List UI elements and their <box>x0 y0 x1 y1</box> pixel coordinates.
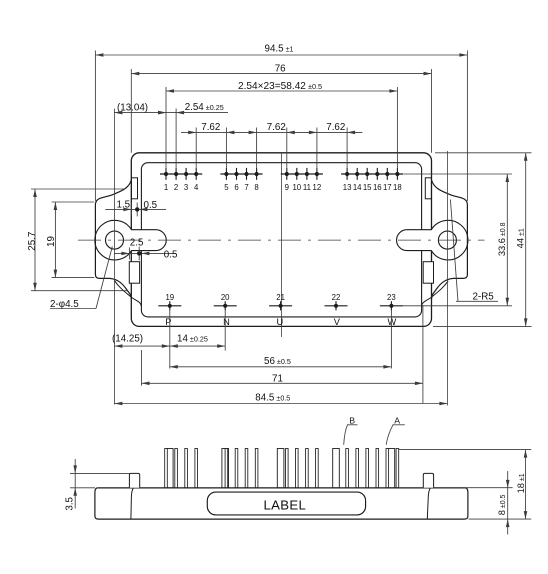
bottom pin crosses 19-23 <box>158 301 403 310</box>
top pin crosses 1-18 <box>164 168 400 180</box>
bottom pin numbers <box>165 293 395 302</box>
side view stub right <box>423 473 433 487</box>
svg-text:20: 20 <box>221 293 230 302</box>
vertical centerline <box>280 153 282 337</box>
svg-text:56 ±0.5: 56 ±0.5 <box>264 356 291 367</box>
pin label B with leader <box>344 415 358 445</box>
side view parting line left <box>131 488 134 519</box>
svg-text:19: 19 <box>165 293 174 302</box>
ext pin1 <box>165 87 167 168</box>
label text <box>264 497 307 512</box>
svg-text:P: P <box>165 317 171 327</box>
svg-text:76: 76 <box>275 63 286 74</box>
ext pins 4 5 8 9 12 13 <box>196 128 347 168</box>
dim 76 case width <box>131 63 431 153</box>
side view stub left <box>129 473 139 487</box>
svg-text:19: 19 <box>46 236 57 247</box>
lid step outline (71 wide) <box>141 163 421 317</box>
svg-text:25.7: 25.7 <box>27 232 38 251</box>
svg-text:B: B <box>349 415 355 425</box>
top pin numbers <box>164 183 402 192</box>
pin label A with leader <box>386 415 405 445</box>
dim (13.04) and 2.54±0.25 <box>114 102 228 114</box>
top pin row lines <box>160 173 403 175</box>
dim (14.25) and 14±0.25 <box>112 334 225 348</box>
svg-text:9: 9 <box>285 183 289 192</box>
dim 7.62 group pitches <box>181 122 362 134</box>
svg-text:5: 5 <box>224 183 229 192</box>
svg-text:94.5 ±1: 94.5 ±1 <box>265 44 294 55</box>
svg-text:23: 23 <box>387 293 396 302</box>
svg-text:7.62: 7.62 <box>201 122 220 133</box>
ext pin2 <box>175 109 177 168</box>
dim 33.6±0.8 pin row span <box>403 174 513 306</box>
mounting cutout R5 right <box>397 220 468 260</box>
svg-text:16: 16 <box>373 183 382 192</box>
svg-text:12: 12 <box>313 183 322 192</box>
svg-text:2.54×23=58.42 ±0.5: 2.54×23=58.42 ±0.5 <box>238 81 322 92</box>
svg-text:22: 22 <box>332 293 341 302</box>
svg-text:84.5 ±0.5: 84.5 ±0.5 <box>255 392 290 403</box>
svg-text:3: 3 <box>184 183 188 192</box>
svg-text:V: V <box>334 317 341 327</box>
svg-text:3.5: 3.5 <box>64 496 75 510</box>
svg-text:11: 11 <box>303 183 311 192</box>
svg-text:15: 15 <box>363 183 372 192</box>
label 2-R5 with leader <box>450 200 498 303</box>
dim 2.54x23=58.42 pin span <box>166 81 397 93</box>
svg-text:7: 7 <box>244 183 248 192</box>
dim 44±1 case height <box>433 153 532 327</box>
svg-text:8: 8 <box>254 183 258 192</box>
dim 71 <box>142 373 423 385</box>
boss rectangle lower-right <box>423 262 433 284</box>
side view parting line right <box>427 488 430 519</box>
mounting cutout R5 left <box>95 220 166 260</box>
svg-text:(14.25): (14.25) <box>112 334 143 345</box>
flange edge line right <box>446 151 448 406</box>
svg-text:LABEL: LABEL <box>264 497 307 512</box>
svg-text:(13.04): (13.04) <box>117 103 148 114</box>
svg-text:U: U <box>277 317 284 327</box>
ext pin18 <box>396 87 398 168</box>
svg-text:2-R5: 2-R5 <box>473 291 495 302</box>
horizontal centerline <box>78 239 485 241</box>
dim 18±1 overall height <box>399 450 531 519</box>
dim 25.7 ear height <box>27 189 127 291</box>
ext lid corners 71 <box>142 305 423 403</box>
label 2-φ4.5 with leader <box>50 247 112 311</box>
side view signal pins (narrow) <box>165 449 399 488</box>
dim 84.5±0.5 flange width <box>114 392 447 405</box>
svg-text:4: 4 <box>194 183 199 192</box>
mounting hole right (φ4.5) <box>438 231 456 249</box>
svg-text:14 ±0.25: 14 ±0.25 <box>177 334 208 345</box>
svg-text:2-φ4.5: 2-φ4.5 <box>50 299 79 310</box>
side view power terminals (wide) <box>167 449 395 488</box>
case outline (76 wide body) <box>131 153 431 327</box>
side view case top edge <box>97 487 466 489</box>
svg-text:2: 2 <box>174 183 178 192</box>
svg-text:71: 71 <box>272 373 283 384</box>
svg-text:W: W <box>388 317 397 327</box>
boss rectangle lower-left <box>129 262 139 284</box>
flange S-curve right <box>421 281 448 307</box>
ext pin20 <box>224 310 226 350</box>
ext pin23 <box>390 310 392 368</box>
mounting ear right <box>432 180 468 299</box>
svg-text:2.5: 2.5 <box>130 238 144 249</box>
flange edge line left <box>113 109 115 405</box>
svg-text:17: 17 <box>383 183 392 192</box>
ext pin19 <box>169 310 171 368</box>
dim 3.5 stub height <box>64 459 129 511</box>
mounting ear left <box>95 180 131 299</box>
dim 8±0.5 body height <box>433 471 513 535</box>
dim 56±0.5 power pin span <box>170 356 392 369</box>
svg-text:A: A <box>394 415 400 425</box>
svg-text:2.54 ±0.25: 2.54 ±0.25 <box>185 102 224 113</box>
svg-text:N: N <box>223 317 230 327</box>
svg-text:10: 10 <box>292 183 301 192</box>
boss rectangle upper-left <box>132 178 138 199</box>
svg-text:21: 21 <box>276 293 285 302</box>
svg-text:6: 6 <box>234 183 238 192</box>
svg-text:1.5: 1.5 <box>117 200 131 211</box>
svg-text:0.5: 0.5 <box>144 200 158 211</box>
datum mark 1.5/0.5 upper-left <box>105 200 166 217</box>
datum mark 2.5/0.5 lower-left <box>114 238 178 261</box>
dim 94.5±1 overall width <box>95 44 467 201</box>
svg-text:14: 14 <box>353 183 362 192</box>
svg-text:7.62: 7.62 <box>267 122 286 133</box>
terminal labels P N U V W <box>165 317 396 327</box>
dim 19 ear flat <box>46 202 94 278</box>
svg-text:1: 1 <box>164 183 168 192</box>
mounting hole left (φ4.5) <box>106 231 124 249</box>
svg-text:13: 13 <box>343 183 352 192</box>
flange S-curve left <box>115 281 142 307</box>
side view base slab <box>95 488 468 519</box>
boss rectangle upper-right <box>425 178 431 199</box>
svg-text:7.62: 7.62 <box>326 122 345 133</box>
svg-text:18: 18 <box>393 183 402 192</box>
svg-text:0.5: 0.5 <box>164 250 178 261</box>
label plate <box>207 492 365 515</box>
